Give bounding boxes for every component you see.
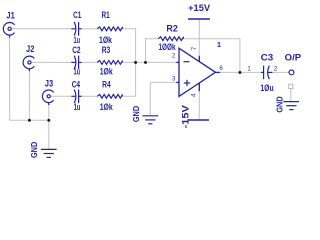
wire op-amp output to C3 (220, 71, 262, 73)
output terminal O/P (289, 70, 294, 75)
wire R2 to output node (183, 39, 240, 73)
resistor R4 (97, 94, 122, 98)
resistor R2 (158, 37, 183, 41)
svg-text:2: 2 (172, 54, 176, 60)
svg-text:R1: R1 (102, 10, 110, 20)
svg-text:+15V: +15V (188, 3, 211, 14)
svg-text:R3: R3 (102, 45, 111, 55)
wire J3 to C4 (50, 95, 72, 97)
ground symbol middle (142, 116, 158, 124)
-15V rail bar (189, 119, 210, 121)
junction bus J2 dot (28, 119, 31, 122)
svg-text:3: 3 (172, 77, 176, 83)
resistor R1 (97, 27, 122, 31)
junction node A dot (134, 61, 137, 64)
+15V rail bar (188, 18, 210, 20)
svg-text:1u: 1u (74, 102, 81, 112)
BNC connector J3 (42, 90, 53, 105)
svg-text:6: 6 (219, 66, 223, 72)
svg-text:GND: GND (30, 142, 39, 159)
svg-text:7: 7 (192, 46, 198, 50)
svg-text:R4: R4 (102, 80, 111, 90)
svg-text:GND: GND (132, 106, 141, 123)
svg-text:R2: R2 (166, 23, 177, 33)
wire ground tail J2 (28, 71, 30, 120)
wire ground bus (10, 119, 49, 121)
wire J2 to C2 (31, 61, 72, 63)
svg-text:4: 4 (192, 93, 198, 97)
svg-text:2: 2 (274, 67, 278, 73)
wire pad to right ground (290, 89, 292, 102)
svg-text:GND: GND (275, 96, 284, 113)
capacitor C1 (71, 22, 81, 36)
junction bus J3 dot (47, 119, 50, 122)
ground symbol right (283, 102, 299, 110)
svg-text:1: 1 (247, 67, 251, 73)
wire R3 to node A (121, 61, 135, 63)
capacitor C2 (71, 56, 81, 70)
junction output node dot (238, 71, 241, 74)
BNC connector J2 (23, 56, 34, 71)
wire C4 to R4 (82, 95, 98, 97)
ground symbol left (41, 149, 57, 157)
wire C3 to O/P terminal (272, 71, 289, 73)
svg-text:1Øk: 1Øk (100, 102, 114, 112)
wire R1 to node A (121, 29, 135, 63)
op-amp plus sign (184, 80, 190, 86)
op-amp minus sign (184, 61, 190, 63)
svg-text:J2: J2 (26, 44, 34, 54)
svg-text:-15V: -15V (181, 104, 192, 128)
svg-text:C4: C4 (72, 80, 80, 90)
svg-text:J3: J3 (45, 78, 53, 88)
svg-text:J1: J1 (6, 10, 14, 20)
wire ground tail J3 (48, 105, 50, 120)
resistor R3 (97, 61, 122, 65)
svg-text:1u: 1u (74, 35, 81, 45)
junction node B dot (144, 61, 147, 64)
wire C1 to R1 (82, 28, 98, 30)
wire bus to ground symbol (48, 120, 50, 149)
wire ground tail J1 (9, 37, 11, 120)
op-amp U1 (176, 48, 220, 96)
svg-text:C1: C1 (73, 10, 81, 20)
svg-text:1Øu: 1Øu (260, 83, 273, 93)
capacitor C3 (261, 66, 272, 80)
svg-text:C3: C3 (261, 52, 274, 62)
svg-text:1ØØk: 1ØØk (159, 42, 177, 52)
wire op-amp pin 3 to ground (150, 82, 176, 115)
svg-text:1Øk: 1Øk (100, 66, 114, 76)
svg-text:O/P: O/P (285, 52, 301, 62)
BNC connector J1 (3, 23, 14, 38)
svg-text:1u: 1u (74, 66, 81, 76)
wire C2 to R3 (82, 61, 98, 63)
capacitor C4 (71, 90, 81, 104)
svg-text:C2: C2 (72, 45, 80, 55)
svg-text:1: 1 (217, 40, 221, 49)
wire feedback tap node B up to R2 (146, 39, 159, 63)
wire +15V rail to pin 7 (198, 20, 200, 56)
svg-text:1Øk: 1Øk (99, 35, 113, 45)
terminal pad square (289, 84, 293, 88)
wire J1 to C1 (11, 28, 72, 30)
wire R4 to node A (121, 62, 135, 96)
wire pin 4 to -15V rail (198, 91, 200, 119)
wire node A to op-amp pin 2 (136, 61, 177, 63)
